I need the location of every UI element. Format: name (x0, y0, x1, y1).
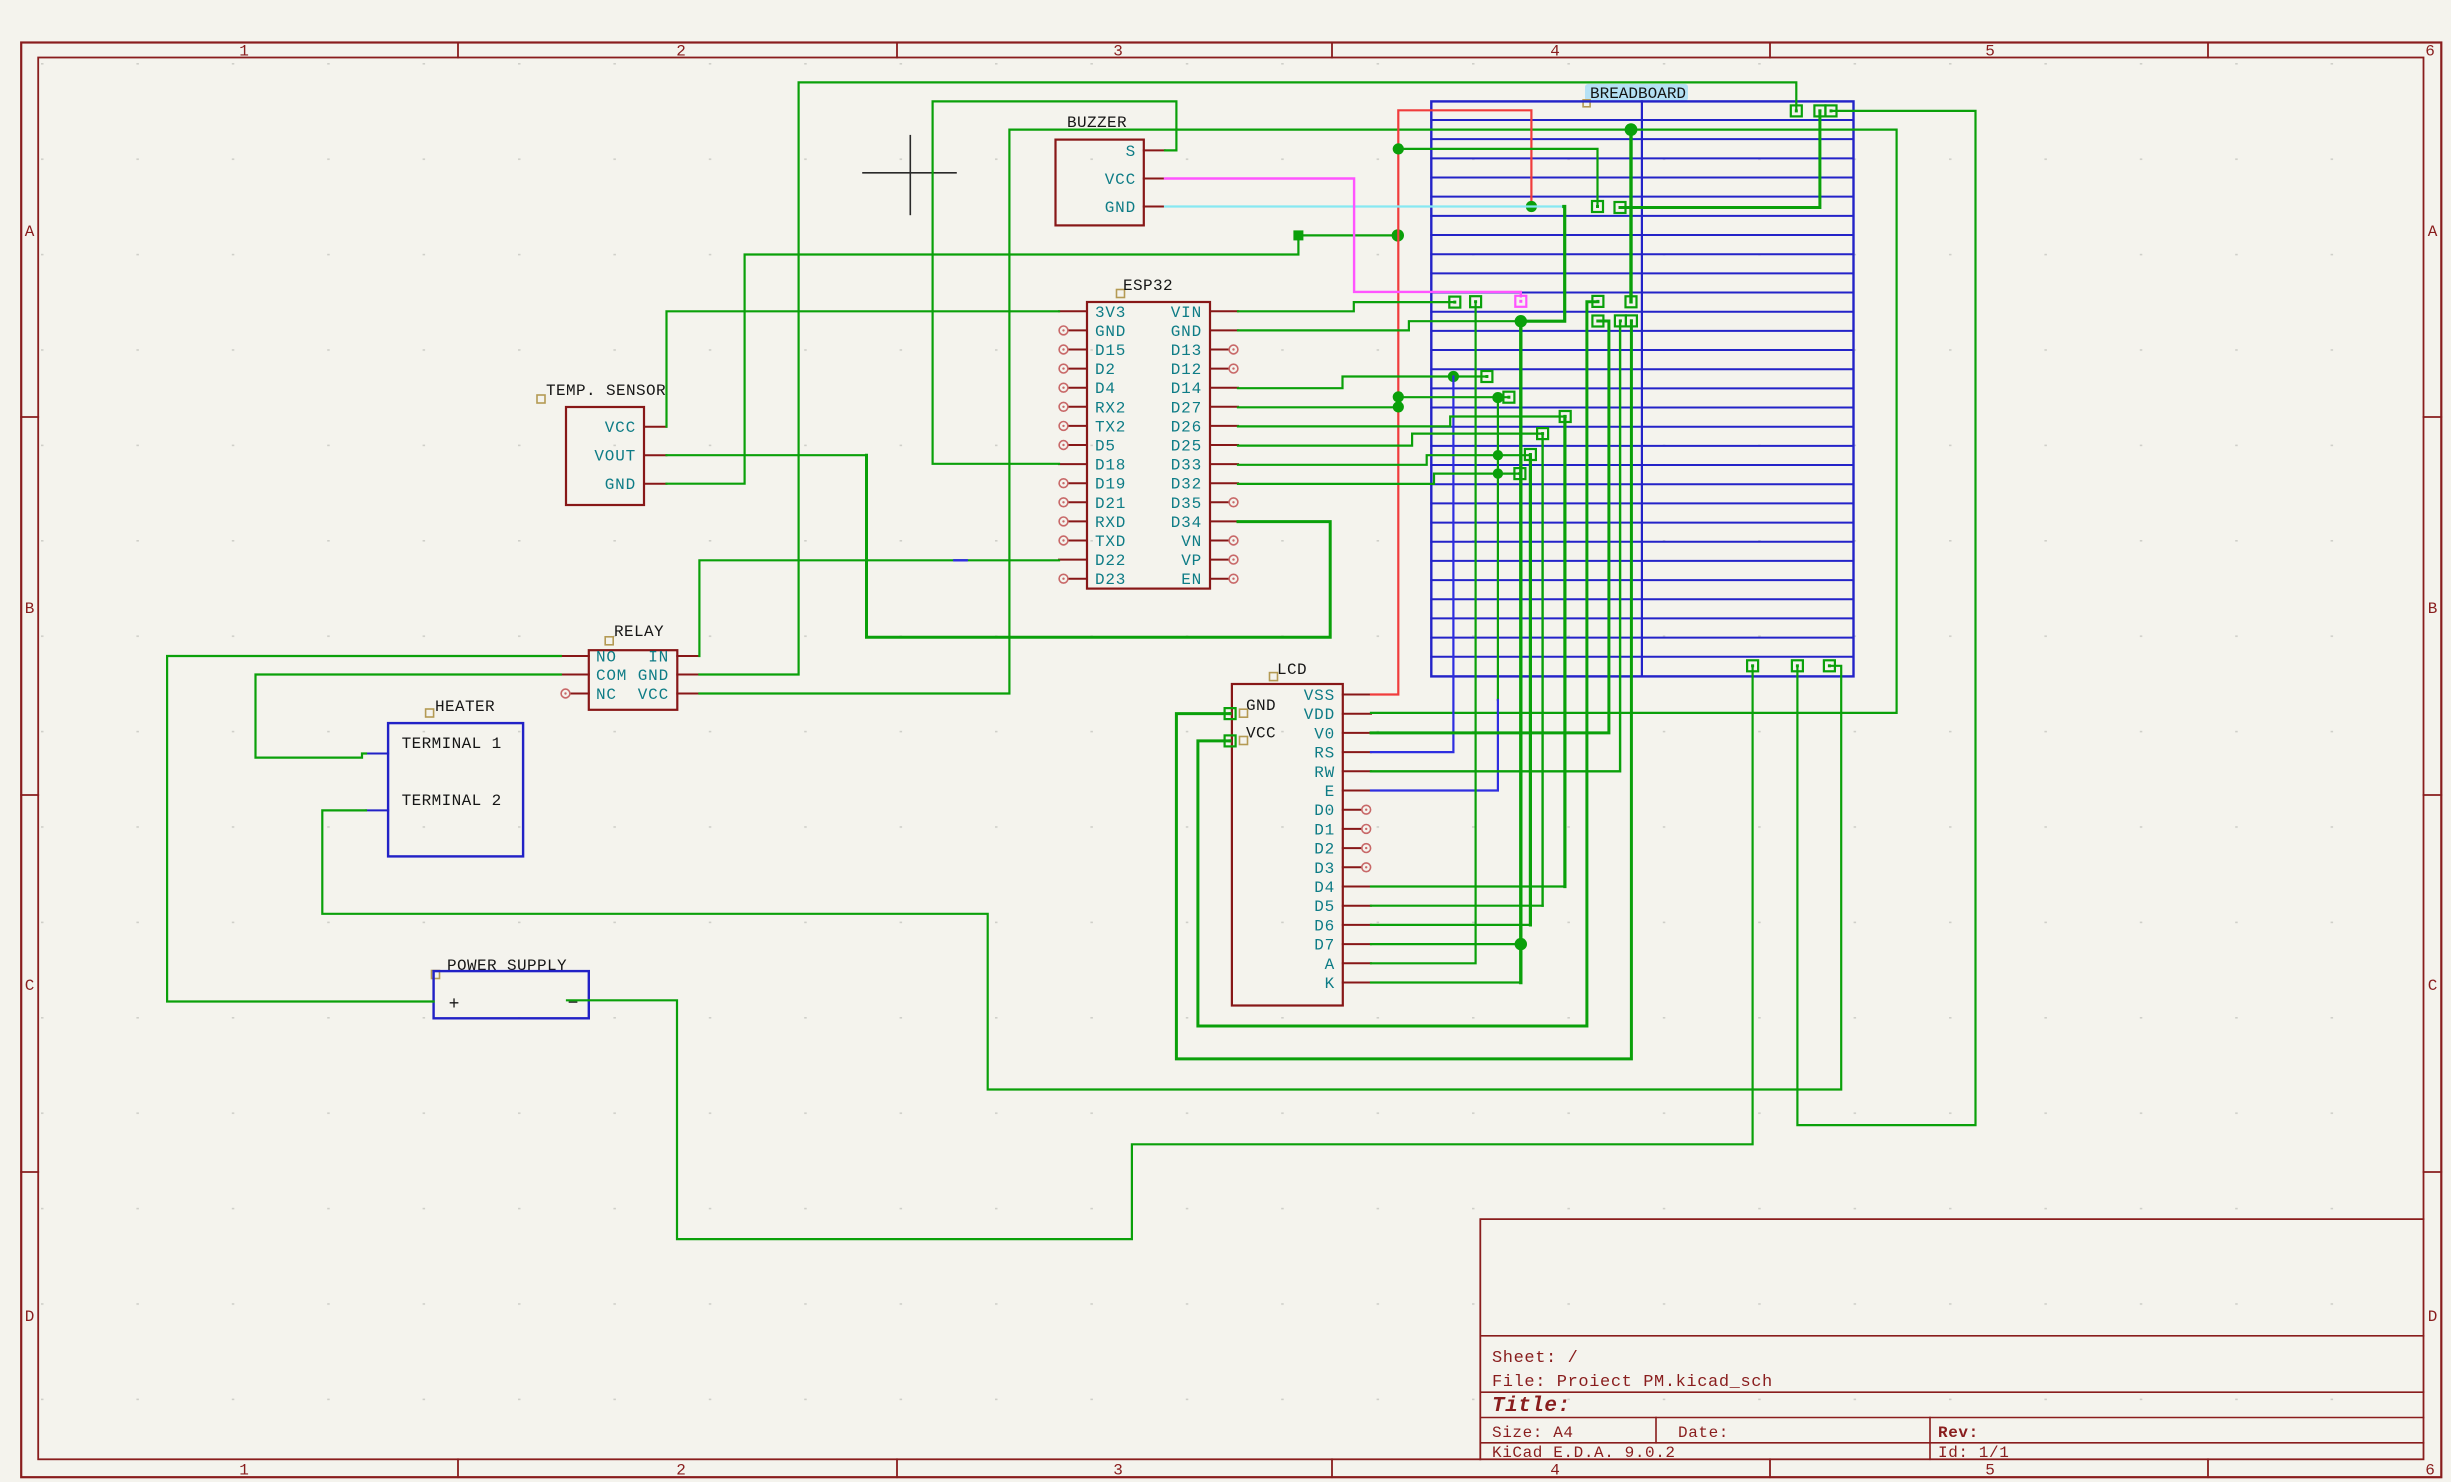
lcd pin V0 (1343, 732, 1371, 734)
junction temp GND on red VSS wire (1392, 229, 1404, 241)
buzzer pin VCC (1144, 178, 1165, 180)
esp32 pin D21 (left) (1069, 501, 1088, 503)
svg-text:NC: NC (596, 686, 617, 704)
esp32 pin D18 (left) (1059, 463, 1087, 465)
wire LCD D5 to riser (1371, 905, 1543, 907)
wire red LCD VSS riser (1371, 110, 1531, 694)
svg-text:2: 2 (676, 1462, 686, 1480)
breadboard label highlight (1585, 84, 1688, 101)
breadboard top pin 2 (1814, 105, 1825, 116)
breadboard pin VIN (1449, 297, 1460, 308)
svg-text:GND: GND (1105, 199, 1136, 217)
svg-text:TEMP. SENSOR: TEMP. SENSOR (546, 382, 666, 400)
svg-text:5: 5 (1985, 43, 1995, 61)
wire LCD D6 to riser (1371, 924, 1530, 926)
lcd pin D4 (1343, 886, 1371, 888)
lcd pin RS (1343, 751, 1371, 753)
svg-text:Size: A4: Size: A4 (1492, 1424, 1574, 1442)
esp32 pin RXD (left) (1069, 520, 1088, 522)
svg-text:2: 2 (676, 43, 686, 61)
lcd pin D7 (1343, 943, 1371, 945)
esp32 pin D22 (left) (1059, 559, 1087, 561)
svg-text:D23: D23 (1095, 571, 1126, 589)
junction E riser at D32 (1493, 468, 1503, 478)
svg-text:GND: GND (605, 476, 636, 494)
breadboard row 14 (1431, 368, 1853, 370)
breadboard row 13 (1431, 349, 1853, 351)
wire relay GND to breadboard top pin (699, 82, 1796, 674)
esp32 box (1087, 302, 1210, 589)
svg-text:KiCad E.D.A. 9.0.2: KiCad E.D.A. 9.0.2 (1492, 1444, 1676, 1462)
svg-text:D14: D14 (1171, 380, 1202, 398)
lcd pin E (1343, 790, 1371, 792)
esp32 pin D12 (right) (1210, 368, 1229, 370)
heater pin TERMINAL 1 (366, 753, 388, 755)
wire blue E riser lower (1371, 700, 1498, 791)
esp32 pin EN (right) (1210, 578, 1229, 580)
breadboard row 29 (1431, 656, 1853, 658)
breadboard pin D27 (1503, 392, 1514, 403)
breadboard box (1431, 101, 1853, 676)
svg-text:K: K (1325, 975, 1335, 993)
svg-text:COM: COM (596, 667, 627, 685)
svg-text:A: A (1325, 956, 1335, 974)
breadboard label anchor (1583, 100, 1590, 107)
junction E riser at D33 (1493, 450, 1503, 460)
breadboard pin jumper left (1615, 202, 1626, 213)
breadboard pin D14 (1481, 371, 1492, 382)
heater pin TERMINAL 2 (366, 809, 388, 811)
breadboard pin A (1470, 296, 1481, 307)
svg-text:Sheet: /: Sheet: / (1492, 1349, 1578, 1368)
breadboard row 15 (1431, 387, 1853, 389)
svg-text:HEATER: HEATER (435, 698, 495, 716)
breadboard row 22 (1431, 522, 1853, 524)
lcd label anchor (1270, 673, 1278, 681)
breadboard bottom pin for PS- (1747, 660, 1758, 671)
breadboard center divider (1641, 101, 1643, 676)
lcd pin D5 (1343, 905, 1371, 907)
esp32 pin D4 (left) (1069, 387, 1088, 389)
breadboard pin D32 (1514, 468, 1525, 479)
breadboard bottom pin 2 (1792, 660, 1803, 671)
buzzer pin S (1144, 149, 1165, 151)
junction gnd rail at LCD D7 (1515, 938, 1527, 950)
temp sensor pin VCC (644, 426, 667, 428)
svg-text:TXD: TXD (1095, 533, 1126, 551)
wire LCD VCC loop to breadboard (1198, 302, 1598, 1026)
wire D27 jog over red wire (1397, 397, 1399, 407)
svg-text:C: C (2428, 977, 2438, 995)
svg-text:B: B (2428, 600, 2438, 618)
svg-text:4: 4 (1550, 43, 1560, 61)
breadboard row 17 (1431, 426, 1853, 428)
svg-text:5: 5 (1985, 1462, 1995, 1480)
svg-text:D35: D35 (1171, 495, 1202, 513)
temp sensor pin GND (644, 483, 667, 485)
lcd pin VSS (1343, 694, 1371, 696)
breadboard pin D25/D5 (1537, 428, 1548, 439)
svg-text:TERMINAL 1: TERMINAL 1 (402, 735, 502, 753)
svg-text:GND: GND (1171, 323, 1202, 341)
breadboard pin LCD GND (1626, 315, 1637, 326)
svg-text:GND: GND (638, 667, 669, 685)
breadboard row 6 (1431, 215, 1853, 217)
svg-text:RS: RS (1314, 745, 1335, 763)
lcd pin VCC (left) (1225, 735, 1236, 746)
wire VSS branch to breadboard pin (1398, 149, 1597, 207)
buzzer box (1056, 140, 1144, 226)
svg-text:EN: EN (1181, 571, 1202, 589)
svg-text:GND: GND (1095, 323, 1126, 341)
svg-text:D7: D7 (1314, 937, 1335, 955)
svg-text:VOUT: VOUT (594, 448, 636, 466)
wire esp32 D33 to breadboard pin (1238, 455, 1530, 465)
svg-text:VN: VN (1181, 533, 1202, 551)
breadboard pin VSS branch (1592, 201, 1603, 212)
esp32 pin D25 (right) (1210, 444, 1238, 446)
breadboard row 19 (1431, 464, 1853, 466)
svg-text:−: − (568, 994, 579, 1014)
junction gnd rail top (1515, 315, 1527, 327)
wire gnd vertical rail to LCD D7 and K (1519, 321, 1522, 982)
wire E riser green upper (1497, 398, 1499, 700)
breadboard row 5 (1431, 196, 1853, 198)
svg-text:RX2: RX2 (1095, 399, 1126, 417)
svg-text:Date:: Date: (1678, 1424, 1729, 1442)
wire relay IN to esp32 D22 (699, 560, 1059, 656)
svg-text:Rev:: Rev: (1938, 1424, 1979, 1442)
breadboard row 10 (1431, 292, 1853, 294)
wire LCD V0 riser (1371, 321, 1609, 733)
esp32 pin VP (right) (1210, 559, 1229, 561)
relay pin GND (677, 674, 699, 676)
wire cyan buzzer GND (1165, 205, 1564, 207)
svg-text:4: 4 (1550, 1462, 1560, 1480)
frame column ticks (457, 43, 459, 58)
temp sensor U box (566, 407, 644, 505)
breadboard pin V0 (1592, 316, 1603, 327)
buzzer pin GND (1144, 206, 1165, 208)
svg-text:D1: D1 (1314, 821, 1335, 839)
esp32 pin VN (right) (1210, 540, 1229, 542)
svg-text:Title:: Title: (1492, 1395, 1571, 1418)
esp32 pin D35 (right) (1210, 501, 1229, 503)
frame row ticks (21, 416, 38, 418)
relay label anchor (605, 637, 613, 645)
esp32 pin D26 (right) (1210, 425, 1238, 427)
breadboard row 3 (1431, 157, 1853, 159)
svg-text:A: A (2428, 223, 2438, 241)
breadboard row 2 (1431, 138, 1853, 140)
svg-text:GND: GND (1246, 697, 1276, 715)
temp sensor label anchor (537, 395, 545, 403)
esp32 label anchor (1117, 290, 1125, 298)
breadboard row 25 (1431, 579, 1853, 581)
svg-text:S: S (1126, 143, 1136, 161)
esp32 pin D23 (left) (1069, 578, 1088, 580)
svg-text:D2: D2 (1095, 361, 1116, 379)
title block row lines (1480, 1335, 2423, 1337)
svg-text:B: B (25, 600, 35, 618)
heater box (388, 723, 523, 856)
lcd pin A (1343, 962, 1371, 964)
wire LCD A riser to breadboard (1371, 302, 1476, 964)
svg-text:File: Proiect PM.kicad_sch: File: Proiect PM.kicad_sch (1492, 1373, 1773, 1392)
esp32 pin D14 (right) (1210, 387, 1238, 389)
svg-text:6: 6 (2425, 1462, 2435, 1480)
wire LCD GND loop to breadboard (1176, 321, 1631, 1059)
wire LCD K to gnd rail (1371, 981, 1521, 983)
wire PS+ to relay NO (167, 656, 561, 1002)
breadboard row 8 (1431, 253, 1853, 255)
svg-text:VIN: VIN (1171, 304, 1202, 322)
esp32 pin D15 (left) (1069, 349, 1088, 351)
junction red VSS to cyan (1526, 201, 1537, 212)
wire magenta buzzer VCC (1165, 179, 1521, 297)
svg-text:6: 6 (2425, 43, 2435, 61)
svg-text:VP: VP (1181, 552, 1202, 570)
svg-text:D18: D18 (1095, 457, 1126, 475)
breadboard row 27 (1431, 617, 1853, 619)
svg-text:ESP32: ESP32 (1123, 277, 1173, 295)
esp32 pin 3V3 (left) (1059, 310, 1087, 312)
breadboard row 11 (1431, 311, 1853, 313)
svg-text:IN: IN (648, 649, 669, 667)
breadboard pin RW (1615, 315, 1626, 326)
svg-text:D33: D33 (1171, 457, 1202, 475)
svg-text:VCC: VCC (605, 419, 636, 437)
lcd pin D2 (1343, 847, 1362, 849)
svg-text:RW: RW (1314, 764, 1335, 782)
lcd box (1232, 684, 1343, 1006)
breadboard row 18 (1431, 445, 1853, 447)
breadboard row 23 (1431, 541, 1853, 543)
title block outline (1480, 1219, 2423, 1459)
esp32 pin GND (right) (1210, 329, 1238, 331)
breadboard row 12 (1431, 330, 1853, 332)
breadboard top pin 1 (1791, 105, 1802, 116)
esp32 pin VIN (right) (1210, 310, 1238, 312)
wire junction drop to breadboard pin (1629, 130, 1632, 302)
esp32 pin D2 (left) (1069, 368, 1088, 370)
lcd pin D6 (1343, 924, 1371, 926)
wire esp32 VIN to breadboard (1238, 302, 1455, 311)
esp32 pin D34 (right) (1210, 520, 1238, 522)
origin crosshair marker (863, 172, 956, 174)
esp32 pin D32 (right) (1210, 482, 1238, 484)
svg-text:A: A (25, 223, 35, 241)
wire LCD D7 to gnd rail (1371, 943, 1521, 945)
svg-text:RELAY: RELAY (614, 623, 664, 641)
wire esp32 D25 to breadboard pin (1238, 434, 1543, 446)
relay pin NO (561, 655, 589, 657)
breadboard row 24 (1431, 560, 1853, 562)
svg-text:3: 3 (1113, 43, 1123, 61)
svg-text:E: E (1325, 783, 1335, 801)
svg-text:D32: D32 (1171, 476, 1202, 494)
esp32 pin D33 (right) (1210, 463, 1238, 465)
junction D27 upper on red wire (1393, 391, 1404, 402)
svg-text:D: D (2428, 1308, 2438, 1326)
wire esp32 D26 to breadboard pin (1238, 417, 1565, 427)
svg-text:V0: V0 (1314, 725, 1335, 743)
svg-text:3V3: 3V3 (1095, 304, 1126, 322)
breadboard row 20 (1431, 483, 1853, 485)
breadboard row 16 (1431, 407, 1853, 409)
wire breadboard bottom pin2 to top right pin (1797, 111, 1975, 1125)
svg-text:VCC: VCC (1105, 171, 1136, 189)
blue overlay segment on D22 wire (954, 559, 966, 561)
relay pin VCC (677, 693, 699, 695)
relay pin NC (570, 693, 589, 695)
svg-text:D13: D13 (1171, 342, 1202, 360)
breadboard pin LCD VCC (1592, 296, 1603, 307)
heater label anchor (426, 709, 434, 717)
wire blue RS riser (1371, 377, 1453, 753)
breadboard row 9 (1431, 272, 1853, 274)
esp32 pin TXD (left) (1069, 540, 1088, 542)
breadboard pin D26/D4 (1560, 411, 1571, 422)
svg-text:TX2: TX2 (1095, 418, 1126, 436)
svg-text:3: 3 (1113, 1462, 1123, 1480)
esp32 pin D19 (left) (1069, 482, 1088, 484)
svg-text:Id: 1/1: Id: 1/1 (1938, 1444, 2009, 1462)
wire LCD D5 riser (1541, 434, 1543, 906)
temp sensor pin VOUT (644, 454, 667, 456)
relay box (589, 650, 678, 710)
svg-text:VSS: VSS (1304, 687, 1335, 705)
wire PS- to breadboard (567, 666, 1753, 1239)
wire esp32 D32 to breadboard pin (1238, 474, 1520, 484)
esp32 pin D5 (left) (1069, 444, 1088, 446)
lcd pin D3 (1343, 866, 1362, 868)
lcd pin GND (left) (1225, 708, 1236, 719)
title block column lines (1655, 1418, 1657, 1443)
svg-text:D26: D26 (1171, 418, 1202, 436)
wire cyan-to-GND vertical drop (1521, 207, 1565, 322)
lcd pin RW (1343, 770, 1371, 772)
relay pin IN (677, 655, 699, 657)
junction D14 RS (1448, 371, 1459, 382)
breadboard row 26 (1431, 598, 1853, 600)
svg-text:D4: D4 (1095, 380, 1116, 398)
esp32 pin RX2 (left) (1069, 406, 1088, 408)
lcd pin VDD (1343, 713, 1371, 715)
junction D27 at E riser (1492, 392, 1503, 403)
svg-text:D2: D2 (1314, 841, 1335, 859)
wire LCD D6 riser (1529, 455, 1532, 925)
breadboard row 28 (1431, 637, 1853, 639)
svg-text:D27: D27 (1171, 399, 1202, 417)
breadboard row 4 (1431, 177, 1853, 179)
junction red VSS green branch (1393, 143, 1404, 154)
wire buzzer S to esp32 D18 (933, 101, 1177, 463)
breadboard bottom pin for heater net (1824, 660, 1835, 671)
junction D27 lower on red wire (1393, 401, 1404, 412)
esp32 pin D13 (right) (1210, 349, 1229, 351)
svg-text:D22: D22 (1095, 552, 1126, 570)
breadboard row 1 (1431, 119, 1853, 121)
breadboard pin magenta (1515, 296, 1526, 307)
breadboard pin D33/D6 (1525, 449, 1536, 460)
svg-text:+: + (449, 995, 460, 1015)
svg-text:D4: D4 (1314, 879, 1335, 897)
svg-text:D0: D0 (1314, 802, 1335, 820)
svg-text:D15: D15 (1095, 342, 1126, 360)
wire esp32 D14 to breadboard (1238, 377, 1487, 389)
svg-text:D25: D25 (1171, 438, 1202, 456)
svg-text:D: D (25, 1308, 35, 1326)
lcd pin D0 (1343, 809, 1362, 811)
svg-text:1: 1 (239, 1462, 249, 1480)
wire LCD RW riser (1371, 321, 1620, 771)
svg-text:D5: D5 (1095, 438, 1116, 456)
svg-text:C: C (25, 977, 35, 995)
svg-text:D34: D34 (1171, 514, 1202, 532)
svg-text:TERMINAL 2: TERMINAL 2 (402, 792, 502, 810)
wire relay COM to heater terminal 1 (256, 675, 561, 758)
svg-text:D3: D3 (1314, 860, 1335, 878)
svg-text:1: 1 (239, 43, 249, 61)
esp32 pin D27 (right) (1210, 406, 1238, 408)
wire breadboard jumper row7 to top pin (1620, 111, 1820, 208)
wire LCD D4 riser (1563, 417, 1566, 887)
wire temp sensor VCC to esp32 3V3 (667, 311, 1060, 426)
wire esp32 D27 to breadboard (1238, 406, 1398, 408)
power supply box (434, 971, 589, 1018)
svg-text:D5: D5 (1314, 898, 1335, 916)
svg-text:D12: D12 (1171, 361, 1202, 379)
lcd pin D1 (1343, 828, 1362, 830)
svg-text:D6: D6 (1314, 917, 1335, 935)
svg-text:D21: D21 (1095, 495, 1126, 513)
esp32 pin GND (left) (1069, 329, 1088, 331)
wire heater terminal 2 to breadboard (322, 666, 1841, 1090)
relay pin COM (561, 674, 589, 676)
wire temp sensor VOUT to esp32 D34 (667, 454, 867, 456)
breadboard row 21 (1431, 502, 1853, 504)
svg-text:VCC: VCC (638, 686, 669, 704)
wire temp sensor GND to VSS red net (667, 235, 1398, 483)
svg-text:LCD: LCD (1277, 661, 1307, 679)
wire corner marker on temp GND net (1293, 230, 1303, 240)
junction relay VCC net at breadboard (1625, 123, 1638, 136)
svg-text:NO: NO (596, 649, 617, 667)
svg-text:VDD: VDD (1304, 706, 1335, 724)
power supply label anchor (432, 971, 440, 979)
wire LCD D4 to riser (1371, 885, 1565, 887)
svg-text:D19: D19 (1095, 476, 1126, 494)
wire esp32 GND to gnd rail (1238, 321, 1521, 330)
svg-text:POWER SUPPLY: POWER SUPPLY (447, 957, 567, 975)
breadboard top pin 3 (1826, 105, 1837, 116)
wire D27 to breadboard pin (1398, 396, 1509, 398)
breadboard pin at 1631 row10 (1626, 296, 1637, 307)
esp32 pin TX2 (left) (1069, 425, 1088, 427)
wire relay VCC to breadboard and LCD VDD (699, 130, 1896, 713)
lcd pin K (1343, 982, 1371, 984)
svg-text:VCC: VCC (1246, 725, 1276, 743)
svg-text:RXD: RXD (1095, 514, 1126, 532)
breadboard row 7 (1431, 234, 1853, 236)
